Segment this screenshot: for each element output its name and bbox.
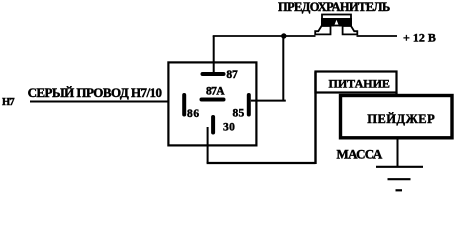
junction dot [281,33,286,38]
ground symbol bar 1 [376,166,423,168]
wire pager to ground [397,139,399,167]
wire top horizontal left segment [213,35,316,37]
svg-text:ПИТАНИЕ: ПИТАНИЕ [329,76,390,90]
wire right vertical up to power box [314,72,316,165]
svg-text:Н7: Н7 [2,97,14,108]
relay pin 30 contact bar [211,117,215,133]
svg-text:85: 85 [233,107,245,119]
relay pin 85 contact bar [247,95,251,115]
wire junction down to pin 85 wire [282,36,284,101]
wire power box to pager [395,93,397,97]
wire bottom horizontal [207,162,316,164]
wire top horizontal right segment [357,35,398,37]
svg-text:87: 87 [226,69,238,81]
svg-text:МАССА: МАССА [337,147,383,162]
svg-text:СЕРЫЙ ПРОВОД Н7/10: СЕРЫЙ ПРОВОД Н7/10 [28,85,162,100]
svg-text:ПЕЙДЖЕР: ПЕЙДЖЕР [367,112,435,126]
relay pin 87 contact bar [203,72,224,76]
pager box [341,96,453,138]
svg-text:ПРЕДОХРАНИТЕЛЬ: ПРЕДОХРАНИТЕЛЬ [278,0,390,14]
fuse F1 left leg [315,26,330,34]
power label box [316,72,397,93]
relay pin 86 contact bar [182,95,186,115]
wire from H7 to relay pin 86 [30,101,170,103]
svg-text:30: 30 [223,122,235,134]
ground symbol bar 3 [396,189,403,191]
relay K1 body [168,62,256,145]
wire pin 30 down [207,127,209,163]
svg-text:+ 12 В: + 12 В [403,31,436,45]
svg-text:86: 86 [187,108,200,120]
relay pin 87A contact bar [202,98,224,102]
ground symbol bar 2 [388,178,411,180]
svg-text:87А: 87А [206,85,225,97]
wire pin 85 to vertical [251,100,286,102]
wire pin 87 up [213,36,215,73]
fuse F1 body [321,15,352,27]
fuse F1 right leg [343,26,358,34]
